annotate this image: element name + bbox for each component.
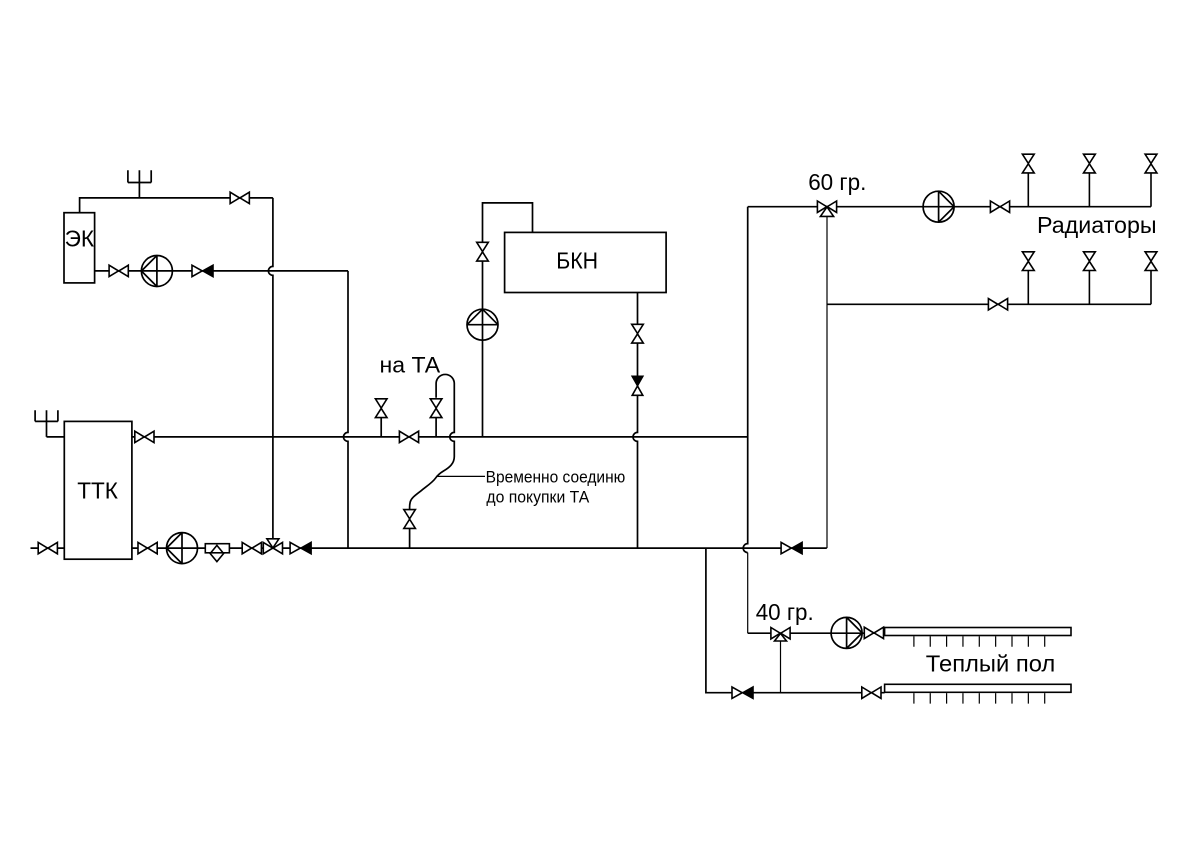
svg-text:БКН: БКН bbox=[556, 248, 598, 274]
svg-text:Радиаторы: Радиаторы bbox=[1037, 212, 1157, 238]
svg-text:40 гр.: 40 гр. bbox=[756, 599, 814, 625]
svg-text:ЭК: ЭК bbox=[65, 226, 95, 252]
svg-text:60 гр.: 60 гр. bbox=[808, 169, 866, 195]
svg-text:до покупки ТА: до покупки ТА bbox=[486, 488, 589, 507]
svg-text:ТТК: ТТК bbox=[77, 477, 118, 503]
svg-text:Теплый пол: Теплый пол bbox=[926, 650, 1056, 676]
svg-text:Временно соединю: Временно соединю bbox=[486, 468, 626, 487]
svg-text:на ТА: на ТА bbox=[380, 353, 441, 378]
